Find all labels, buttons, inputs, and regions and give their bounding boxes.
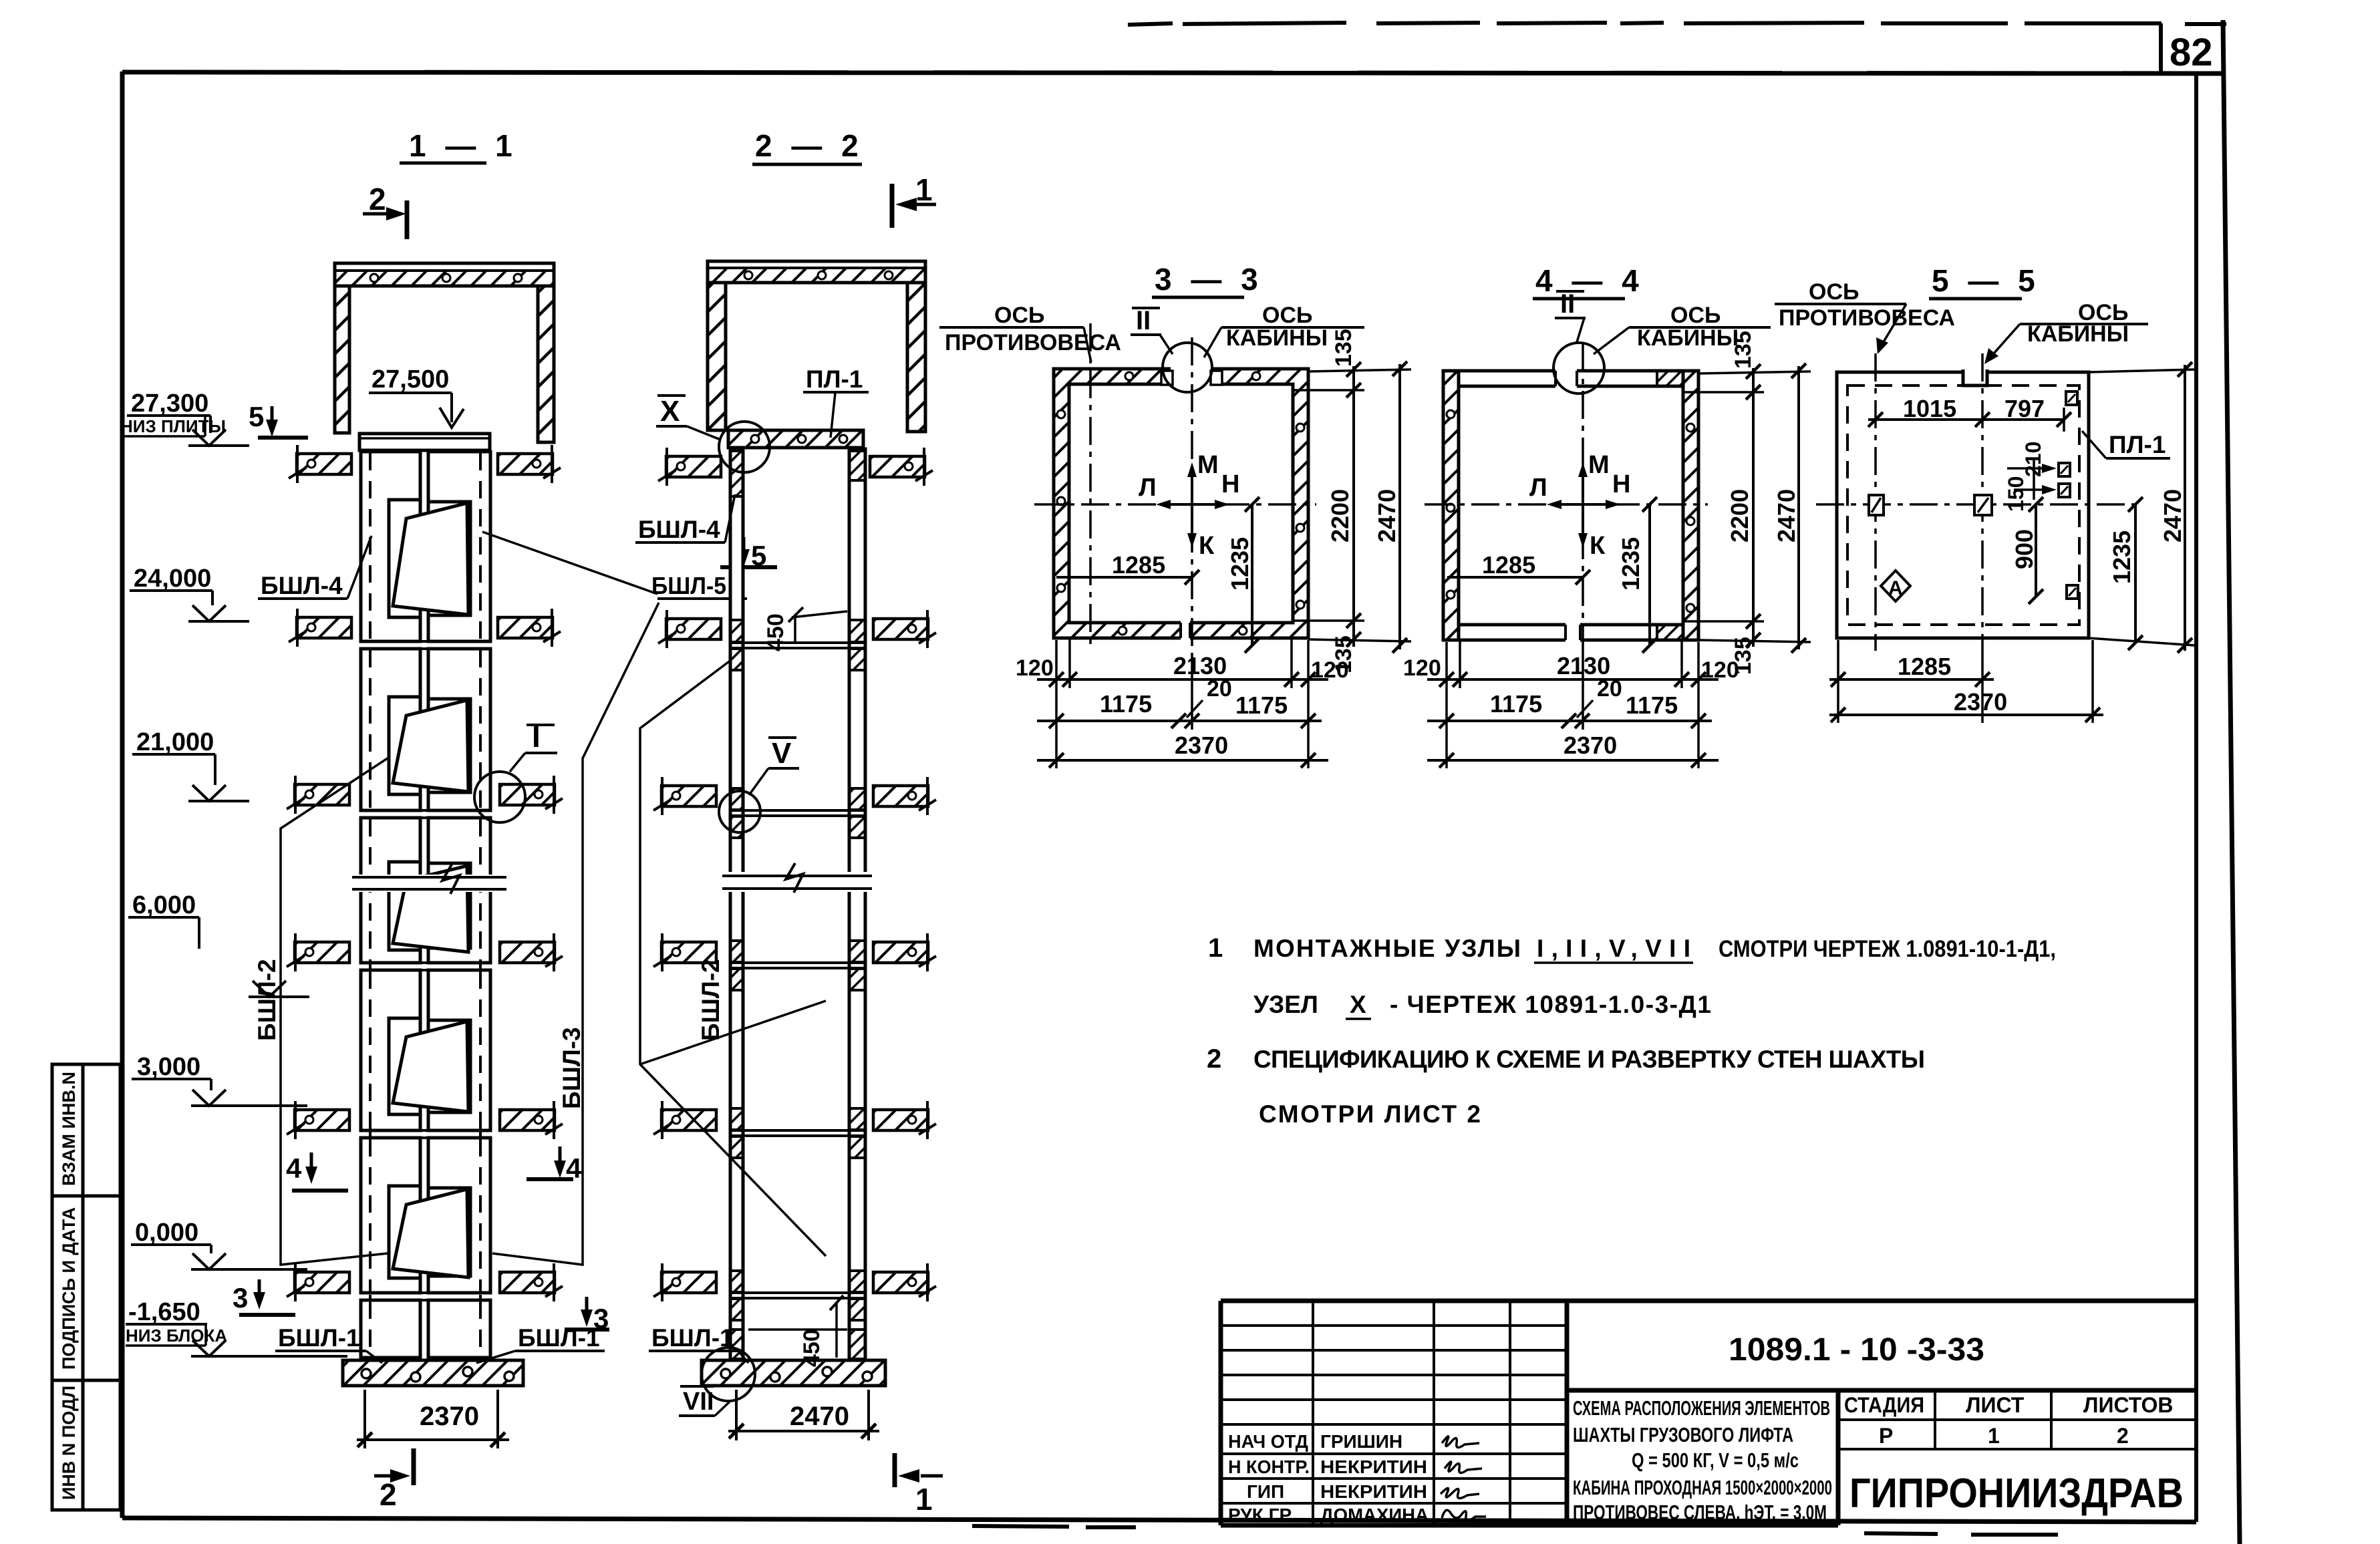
title block outer lines bbox=[1221, 1301, 2196, 1525]
svg-text:1285: 1285 bbox=[1482, 551, 1535, 579]
svg-text:2470: 2470 bbox=[2159, 489, 2186, 543]
small fixing plates right bbox=[2066, 392, 2077, 405]
svg-text:ГИПРОНИИЗДРАВ: ГИПРОНИИЗДРАВ bbox=[1849, 1471, 2184, 1517]
storey module 3 walls bbox=[361, 818, 490, 963]
floor slab bands left of shaft bbox=[289, 445, 351, 483]
svg-text:ИНВ N ПОДЛ: ИНВ N ПОДЛ bbox=[59, 1386, 79, 1500]
svg-text:КАБИНЫ: КАБИНЫ bbox=[1226, 325, 1328, 351]
machine room slab 1-1 bbox=[335, 263, 554, 286]
svg-text:120: 120 bbox=[1311, 657, 1349, 683]
svg-text:-1,650: -1,650 bbox=[128, 1298, 200, 1326]
node X circle bbox=[719, 422, 770, 472]
svg-text:Н: Н bbox=[1221, 470, 1239, 498]
SECTION 1-1 bbox=[120, 128, 777, 1512]
right wall dashed centerline bbox=[479, 453, 482, 1356]
svg-text:БШЛ-4: БШЛ-4 bbox=[261, 572, 343, 599]
svg-text:ОСЬ: ОСЬ bbox=[1670, 303, 1721, 328]
svg-text:К: К bbox=[1590, 532, 1606, 560]
machine room right wall bbox=[538, 286, 554, 442]
svg-text:НЕКРИТИН: НЕКРИТИН bbox=[1320, 1456, 1427, 1477]
right dim lines 135/2200/135 bbox=[1683, 371, 1811, 642]
shared dim line 2470 bbox=[1797, 366, 1800, 649]
right dim line 2470 bbox=[1398, 364, 1401, 649]
svg-text:НЕКРИТИН: НЕКРИТИН bbox=[1320, 1481, 1427, 1502]
svg-text:120: 120 bbox=[1403, 655, 1441, 681]
svg-text:1175: 1175 bbox=[1626, 691, 1678, 719]
bottom dim 2370 bbox=[1037, 759, 1328, 762]
bottom dims row 1175/20/1175 bbox=[1427, 720, 1712, 722]
machine room left wall 2-2 bbox=[708, 283, 726, 430]
svg-text:Н КОНТР.: Н КОНТР. bbox=[1228, 1456, 1310, 1477]
slab ПЛ-1 on shaft top bbox=[728, 430, 863, 448]
elevation 3,000 bbox=[132, 1053, 307, 1106]
svg-text:БШЛ-5: БШЛ-5 bbox=[651, 572, 726, 599]
svg-text:20: 20 bbox=[1207, 676, 1232, 702]
bottom block БШЛ-1 walls bbox=[361, 1300, 490, 1358]
left wall hatched bbox=[1443, 371, 1459, 640]
svg-text:Р: Р bbox=[1879, 1424, 1893, 1448]
dimension 2470 under section 2-2 bbox=[735, 1390, 738, 1440]
joint slabs between storeys bbox=[359, 641, 490, 1300]
svg-text:4: 4 bbox=[286, 1152, 302, 1184]
cut marker 1 top bbox=[890, 184, 895, 228]
svg-text:2370: 2370 bbox=[1954, 688, 2007, 716]
svg-text:135: 135 bbox=[1331, 329, 1356, 367]
svg-text:120: 120 bbox=[1016, 655, 1054, 681]
svg-text:СХЕМА РАСПОЛОЖЕНИЯ ЭЛЕМЕНТОВ: СХЕМА РАСПОЛОЖЕНИЯ ЭЛЕМЕНТОВ bbox=[1573, 1396, 1830, 1420]
svg-text:1235: 1235 bbox=[1617, 537, 1644, 591]
PLAN 4-4 bbox=[1403, 263, 1811, 768]
svg-text:2370: 2370 bbox=[1175, 732, 1228, 759]
svg-text:ГИП: ГИП bbox=[1247, 1481, 1284, 1502]
top plate outline bbox=[1837, 372, 2089, 638]
svg-text:РУК ГР: РУК ГР bbox=[1228, 1505, 1292, 1525]
svg-text:3 — 3: 3 — 3 bbox=[1155, 262, 1263, 297]
cut marker 3 right bbox=[585, 1297, 589, 1320]
gap in bottom wall bbox=[1181, 620, 1190, 641]
svg-text:2130: 2130 bbox=[1173, 652, 1227, 679]
SECTION 2-2 bbox=[635, 128, 943, 1517]
svg-text:82: 82 bbox=[2170, 31, 2213, 74]
machine room right wall 2-2 bbox=[907, 283, 925, 432]
elevation 24,000 bbox=[130, 565, 249, 621]
svg-text:20: 20 bbox=[1597, 676, 1622, 702]
svg-text:БШЛ-4: БШЛ-4 bbox=[638, 516, 720, 543]
counterweight axis vertical bbox=[1089, 323, 1092, 645]
bottom dims row 1175/20/1175 bbox=[1037, 720, 1322, 722]
cab axis vertical bbox=[1191, 337, 1193, 658]
floor slab bands right of 2-2 bbox=[870, 448, 933, 486]
svg-text:1 — 1: 1 — 1 bbox=[409, 128, 518, 163]
svg-text:- ЧЕРТЕЖ 10891-1.0-3-Д1: - ЧЕРТЕЖ 10891-1.0-3-Д1 bbox=[1390, 991, 1711, 1018]
svg-text:1015: 1015 bbox=[1903, 395, 1956, 422]
svg-text:2130: 2130 bbox=[1557, 652, 1610, 679]
shaft left wall 2-2 bbox=[730, 449, 743, 1360]
bottom dim 1285 bbox=[1838, 640, 2093, 723]
door panel storey 5 bbox=[393, 1189, 468, 1277]
storey module 2 walls bbox=[361, 649, 490, 810]
svg-text:БШЛ-1: БШЛ-1 bbox=[278, 1324, 360, 1352]
node V circle bbox=[719, 791, 760, 832]
svg-text:X: X bbox=[1350, 991, 1366, 1018]
direction arrows М Л Н К bbox=[1529, 451, 1630, 560]
cut marker 2 bottom bbox=[412, 1448, 416, 1485]
svg-text:НИЗ БЛОКА: НИЗ БЛОКА bbox=[126, 1326, 227, 1346]
svg-text:450: 450 bbox=[763, 613, 788, 651]
inventory strip box bbox=[52, 1064, 120, 1510]
svg-text:СПЕЦИФИКАЦИЮ К СХЕМЕ И РАЗВЕ: СПЕЦИФИКАЦИЮ К СХЕМЕ И РАЗВЕРТКУ СТЕН ША… bbox=[1253, 1046, 1925, 1073]
right dim lines 135/2200/135 bbox=[1293, 369, 1411, 641]
bottom dim 2370 bbox=[1829, 714, 2103, 716]
bottom dims row 120/2130/120 bbox=[1447, 640, 1698, 768]
svg-text:1235: 1235 bbox=[2108, 530, 2135, 584]
right wall hatched bbox=[1683, 371, 1698, 640]
right dim 2470 bbox=[2089, 369, 2195, 645]
foundation slab 2-2 bbox=[702, 1360, 885, 1386]
svg-text:1089.1 - 10 -3-33: 1089.1 - 10 -3-33 bbox=[1729, 1332, 1984, 1368]
svg-text:1285: 1285 bbox=[1898, 653, 1951, 680]
signature rows bbox=[1228, 1431, 1429, 1525]
cab axis bbox=[1981, 353, 1984, 653]
door gap top wall bbox=[1555, 367, 1577, 390]
svg-text:БШЛ-2: БШЛ-2 bbox=[253, 959, 281, 1041]
node VII circle bbox=[702, 1348, 755, 1401]
anchor block on cab axis bbox=[1974, 495, 1992, 515]
horizontal axis bbox=[1425, 503, 1708, 506]
node II circle on 3-3 bbox=[1163, 343, 1212, 392]
svg-text:1235: 1235 bbox=[1226, 537, 1253, 591]
counterweight axis bbox=[1874, 353, 1877, 651]
joint lines and hatch blocks 2-2 bbox=[730, 620, 865, 670]
bottom dims row 120/2130/120 bbox=[1056, 638, 1308, 768]
svg-text:1: 1 bbox=[1208, 933, 1223, 963]
door panel storey 2 bbox=[393, 700, 468, 792]
PLAN 3-3 bbox=[939, 262, 1411, 768]
horizontal axis bbox=[1034, 503, 1316, 506]
svg-text:СТАДИЯ: СТАДИЯ bbox=[1844, 1393, 1924, 1417]
door panel storey 3 bbox=[393, 866, 468, 952]
bottom wall hatch 2-2 bbox=[730, 1330, 743, 1359]
svg-text:1175: 1175 bbox=[1100, 690, 1152, 718]
svg-text:1285: 1285 bbox=[1112, 551, 1165, 579]
svg-text:ОСЬ: ОСЬ bbox=[1809, 279, 1859, 305]
svg-text:0,000: 0,000 bbox=[135, 1219, 198, 1247]
svg-text:УЗЕЛ: УЗЕЛ bbox=[1253, 991, 1318, 1018]
svg-text:КАБИНЫ: КАБИНЫ bbox=[1637, 325, 1739, 351]
direction arrows М Л Н К bbox=[1139, 451, 1239, 560]
svg-text:2470: 2470 bbox=[1373, 489, 1400, 543]
svg-text:II: II bbox=[1560, 289, 1575, 319]
svg-text:1175: 1175 bbox=[1235, 691, 1288, 719]
floor slab bands left of 2-2 bbox=[658, 448, 721, 486]
svg-text:1: 1 bbox=[915, 1482, 933, 1517]
svg-text:ДОМАХИНА: ДОМАХИНА bbox=[1320, 1505, 1429, 1525]
wall hatch blocks top bbox=[730, 451, 743, 496]
storey module 4 walls bbox=[361, 970, 490, 1130]
svg-text:ОСЬ: ОСЬ bbox=[1262, 303, 1312, 328]
plate dashed edge bbox=[1847, 385, 2079, 625]
svg-text:А: А bbox=[1888, 577, 1903, 599]
svg-text:24,000: 24,000 bbox=[134, 565, 211, 593]
svg-text:2: 2 bbox=[369, 182, 386, 216]
svg-text:ГРИШИН: ГРИШИН bbox=[1320, 1431, 1402, 1452]
cab axis vertical bbox=[1582, 344, 1584, 653]
mark А diamond bbox=[1881, 571, 1910, 601]
svg-text:Н: Н bbox=[1612, 470, 1630, 498]
door panel storey 1 bbox=[393, 503, 468, 615]
svg-text:2 — 2: 2 — 2 bbox=[755, 128, 864, 163]
svg-text:3: 3 bbox=[233, 1282, 248, 1314]
svg-text:797: 797 bbox=[2004, 395, 2045, 422]
bottom wall double line bbox=[1443, 639, 1698, 642]
svg-text:СМОТРИ ЛИСТ 2: СМОТРИ ЛИСТ 2 bbox=[1259, 1100, 1481, 1128]
svg-text:3,000: 3,000 bbox=[137, 1053, 200, 1081]
svg-text:27,500: 27,500 bbox=[371, 365, 449, 394]
signatures bbox=[1441, 1436, 1486, 1521]
svg-text:СМОТРИ ЧЕРТЕЖ 1.0891-10-1-Д1,: СМОТРИ ЧЕРТЕЖ 1.0891-10-1-Д1, bbox=[1719, 936, 2056, 962]
svg-text:ЛИСТОВ: ЛИСТОВ bbox=[2083, 1393, 2174, 1417]
svg-text:2200: 2200 bbox=[1326, 489, 1354, 543]
svg-text:2470: 2470 bbox=[790, 1402, 849, 1431]
svg-text:КАБИНА ПРОХОДНАЯ 1500×2000×200: КАБИНА ПРОХОДНАЯ 1500×2000×2000 bbox=[1573, 1476, 1832, 1499]
anchor block on cw axis bbox=[1869, 495, 1884, 515]
svg-text:НАЧ ОТД: НАЧ ОТД bbox=[1228, 1431, 1308, 1452]
TITLE BLOCK bbox=[1221, 1301, 2196, 1525]
svg-text:М: М bbox=[1197, 451, 1219, 479]
sheet outer right edge bbox=[2223, 20, 2240, 1544]
svg-text:1: 1 bbox=[915, 172, 933, 207]
machine room slab 2-2 bbox=[708, 261, 925, 283]
svg-text:21,000: 21,000 bbox=[136, 728, 214, 756]
top scan dashed edge bbox=[1128, 23, 2226, 25]
svg-text:2: 2 bbox=[380, 1477, 397, 1512]
foundation slab 1-1 bbox=[343, 1360, 523, 1386]
svg-text:VII: VII bbox=[683, 1388, 714, 1416]
svg-text:5 — 5: 5 — 5 bbox=[1932, 263, 2041, 298]
svg-text:2: 2 bbox=[1207, 1044, 1221, 1074]
break symbol bbox=[347, 875, 510, 892]
storey module 1 walls bbox=[361, 452, 490, 641]
horizontal axis bbox=[1816, 503, 2135, 506]
PLAN 5-5 bbox=[1775, 263, 2195, 723]
svg-text:4 — 4: 4 — 4 bbox=[1535, 263, 1644, 298]
cut marker 5 right bbox=[742, 537, 746, 560]
shaft walls plan 3-3 bbox=[1054, 369, 1308, 638]
svg-text:Q = 500 КГ, V = 0,5 м/с: Q = 500 КГ, V = 0,5 м/с bbox=[1632, 1448, 1799, 1472]
svg-text:ПРОТИВОВЕС СЛЕВА, hЭТ. = 3.0М: ПРОТИВОВЕС СЛЕВА, hЭТ. = 3.0М bbox=[1573, 1501, 1827, 1524]
svg-text:450: 450 bbox=[799, 1329, 825, 1367]
svg-text:6,000: 6,000 bbox=[132, 891, 196, 919]
svg-text:М: М bbox=[1588, 451, 1610, 479]
svg-text:ЛИСТ: ЛИСТ bbox=[1966, 1393, 2025, 1417]
project title lines bbox=[1573, 1396, 1832, 1524]
svg-text:МОНТАЖНЫЕ УЗЛЫ: МОНТАЖНЫЕ УЗЛЫ bbox=[1253, 935, 1521, 962]
svg-text:ПРОТИВОВЕСА: ПРОТИВОВЕСА bbox=[1779, 305, 1955, 331]
bottom scan dashes bbox=[972, 1526, 2058, 1535]
NOTES bbox=[1207, 933, 2056, 1128]
storey module 5 walls bbox=[361, 1138, 490, 1293]
svg-text:2470: 2470 bbox=[1773, 489, 1800, 543]
door panel storey 4 bbox=[393, 1022, 468, 1112]
svg-text:Л: Л bbox=[1139, 474, 1157, 502]
svg-text:X: X bbox=[660, 395, 680, 428]
elevation 27,300 bbox=[120, 390, 249, 446]
stage box bbox=[1838, 1390, 2196, 1449]
floor slab bands right of shaft bbox=[498, 445, 561, 483]
elevation 6,000 bbox=[128, 891, 309, 997]
node II circle on 4-4 bbox=[1553, 343, 1604, 394]
dimension 2370 under section 1-1 bbox=[363, 1390, 366, 1448]
svg-text:II: II bbox=[1136, 306, 1151, 335]
svg-text:2: 2 bbox=[2117, 1424, 2129, 1448]
svg-text:V: V bbox=[772, 737, 792, 770]
svg-text:ПЛ-1: ПЛ-1 bbox=[2109, 431, 2166, 458]
svg-text:2370: 2370 bbox=[420, 1402, 479, 1431]
node I circle bbox=[474, 772, 525, 822]
svg-text:БШЛ-1: БШЛ-1 bbox=[518, 1324, 600, 1352]
svg-text:150: 150 bbox=[2004, 476, 2028, 512]
svg-text:Л: Л bbox=[1529, 474, 1547, 502]
shaft top slab bbox=[359, 434, 490, 450]
page number box bbox=[2159, 23, 2163, 73]
svg-text:ШАХТЫ ГРУЗОВОГО ЛИФТА: ШАХТЫ ГРУЗОВОГО ЛИФТА bbox=[1573, 1423, 1793, 1446]
svg-text:1: 1 bbox=[1988, 1424, 2000, 1448]
svg-text:ПРОТИВОВЕСА: ПРОТИВОВЕСА bbox=[945, 330, 1121, 355]
svg-text:ПЛ-1: ПЛ-1 bbox=[806, 365, 863, 393]
shaft right wall 2-2 bbox=[849, 449, 865, 1360]
svg-text:ОСЬ: ОСЬ bbox=[994, 303, 1044, 328]
top wall double line bbox=[1443, 369, 1698, 373]
svg-text:БШЛ-3: БШЛ-3 bbox=[558, 1027, 585, 1109]
svg-text:900: 900 bbox=[2011, 529, 2038, 569]
svg-text:ВЗАМ ИНВ.N: ВЗАМ ИНВ.N bbox=[59, 1072, 79, 1186]
svg-text:27,300: 27,300 bbox=[131, 390, 208, 418]
machine room left wall bbox=[335, 286, 349, 433]
bottom dim 2370 bbox=[1427, 759, 1719, 762]
svg-text:ПОДПИСЬ И ДАТА: ПОДПИСЬ И ДАТА bbox=[59, 1207, 79, 1370]
door gap in top wall bbox=[1171, 365, 1211, 388]
svg-text:1175: 1175 bbox=[1490, 690, 1542, 718]
top notch bbox=[1963, 369, 1987, 384]
elevation -1,650 bbox=[126, 1298, 347, 1356]
elevation 21,000 bbox=[132, 728, 249, 801]
svg-text:БШЛ-2: БШЛ-2 bbox=[697, 959, 724, 1041]
svg-text:2370: 2370 bbox=[1564, 732, 1617, 759]
break symbol 2-2 bbox=[719, 872, 875, 892]
cut marker 4 right bbox=[559, 1146, 562, 1171]
svg-text:2200: 2200 bbox=[1726, 489, 1753, 543]
left wall dashed centerline bbox=[369, 453, 371, 1356]
svg-text:К: К bbox=[1199, 532, 1215, 560]
elevation 0,000 bbox=[131, 1219, 307, 1269]
cut marker 1 bottom bbox=[893, 1453, 897, 1487]
signature table grid bbox=[1221, 1301, 1567, 1525]
svg-text:120: 120 bbox=[1701, 657, 1739, 683]
svg-text:5: 5 bbox=[249, 401, 264, 432]
